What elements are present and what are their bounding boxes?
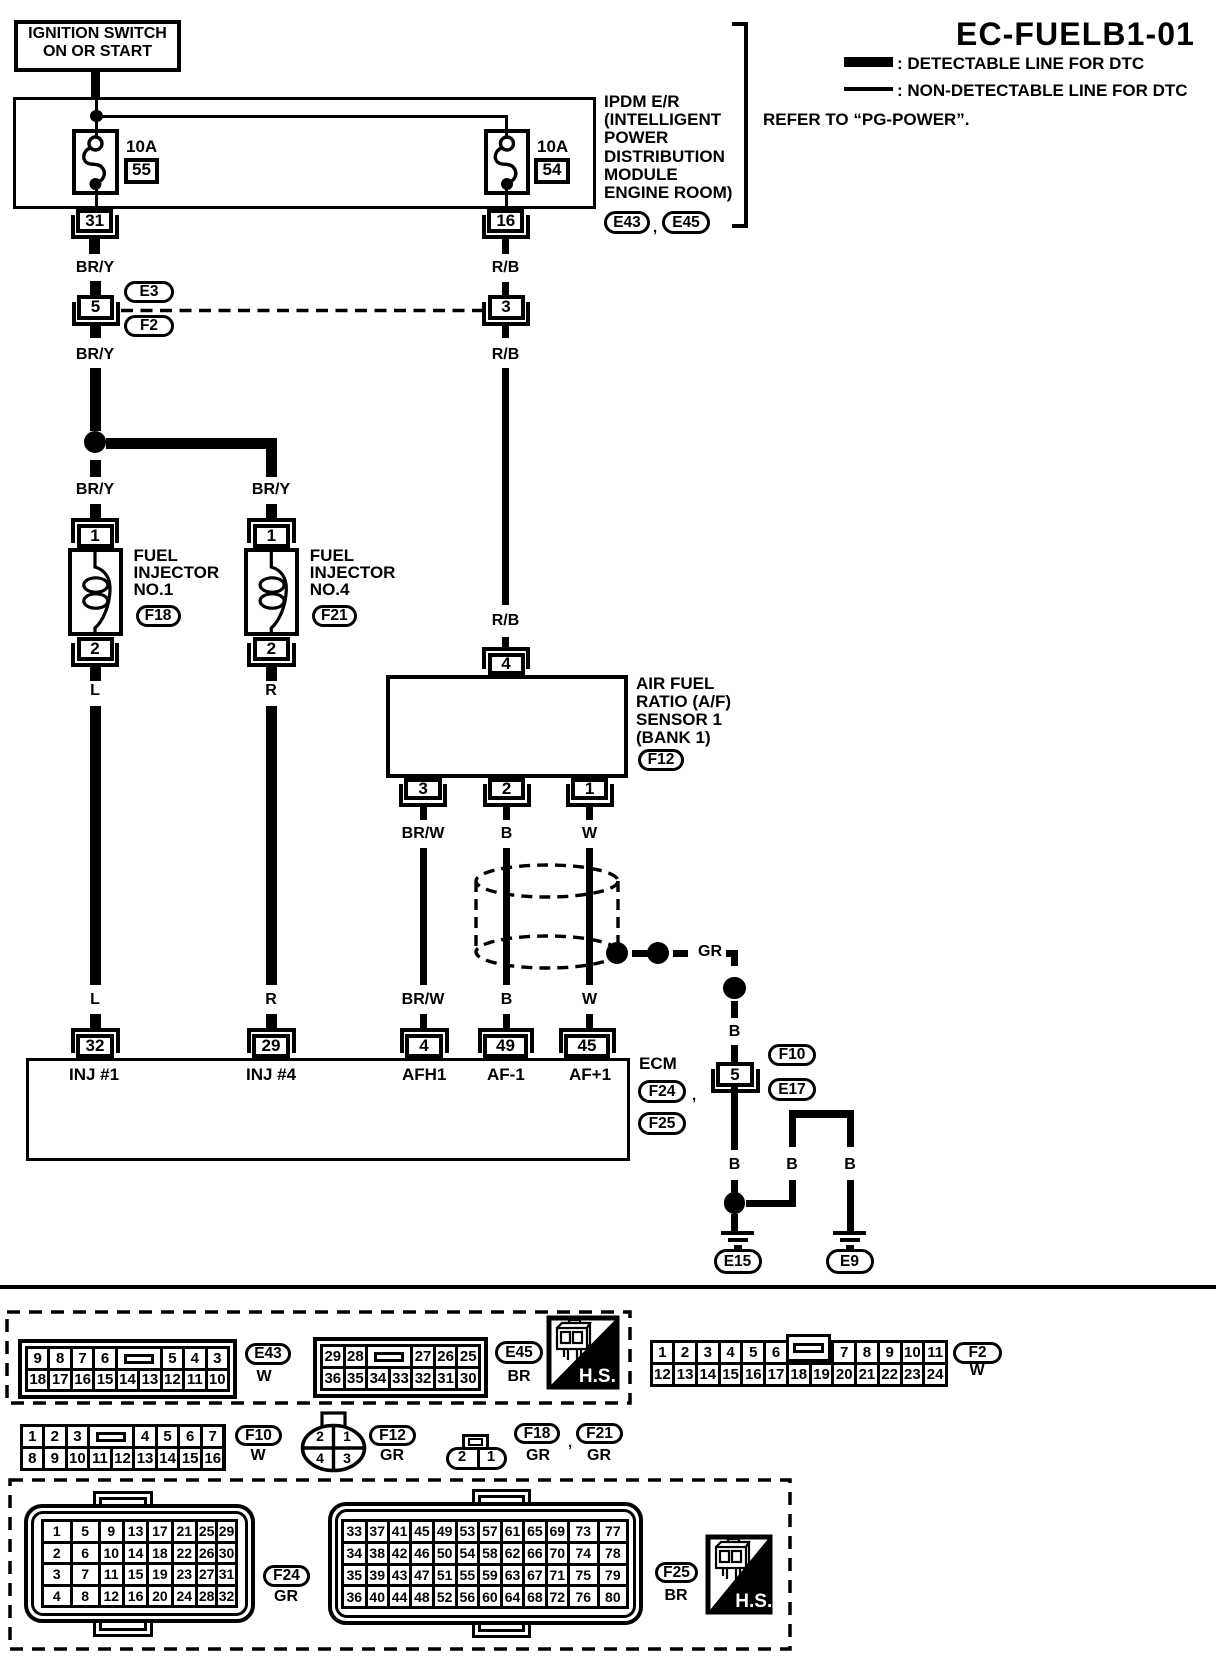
svg-text:H.S.: H.S. xyxy=(735,1591,772,1612)
svg-text:H.S.: H.S. xyxy=(579,1366,616,1387)
